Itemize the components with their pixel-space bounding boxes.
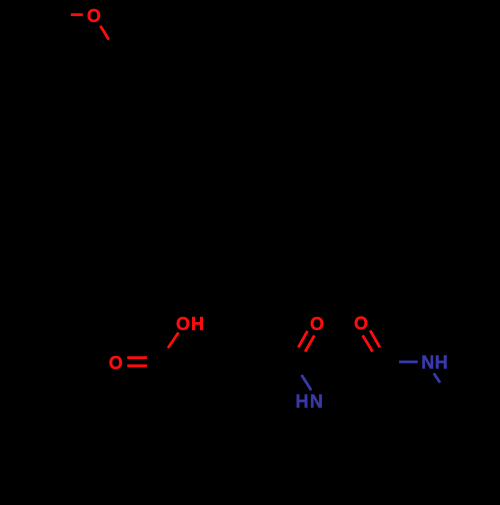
svg-text:O: O: [109, 353, 123, 373]
svg-text:N: N: [421, 353, 434, 373]
bond N-CH3 (N half): [434, 373, 440, 382]
double bond C=O carboxyl (O halves): [127, 356, 147, 359]
svg-text:O: O: [354, 314, 368, 334]
svg-text:H: H: [191, 314, 204, 334]
svg-text:N: N: [310, 392, 323, 412]
svg-text:H: H: [296, 392, 309, 412]
double bond C=O amide 2 (O halves): [370, 330, 380, 347]
svg-text:H: H: [435, 353, 448, 373]
svg-text:O: O: [176, 314, 190, 334]
bond C-N amide 2 (N half): [399, 360, 418, 363]
svg-text:O: O: [87, 6, 101, 26]
bond C-OH (O half): [168, 333, 179, 349]
bond C-N amide 1 (N half): [302, 375, 312, 390]
bond CH3-O (methoxy, O half): [71, 13, 83, 16]
svg-text:O: O: [310, 314, 324, 334]
double bond C=O amide 1 (O halves): [298, 331, 307, 348]
bond O-C aryl (O half): [100, 26, 108, 40]
